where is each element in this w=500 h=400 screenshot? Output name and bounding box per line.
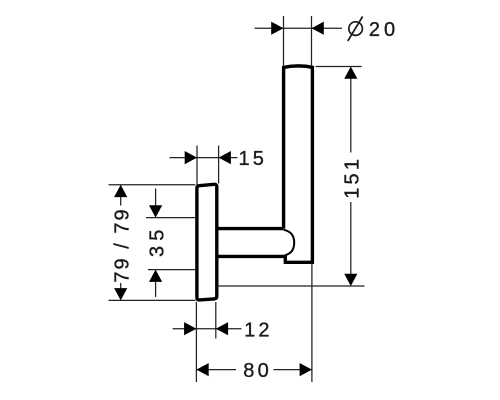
arrowhead 79/79 bottom (points down) — [114, 288, 127, 300]
dim 12 right tail — [216, 328, 242, 330]
svg-text:79 / 79: 79 / 79 — [112, 207, 134, 282]
arm-to-pipe transition arc — [284, 230, 294, 255]
arm bottom edge — [217, 255, 285, 258]
dim 15 extension line left — [196, 146, 198, 186]
arrowhead 79/79 top (points up) — [114, 185, 127, 197]
dim Ø20 right tail — [312, 27, 343, 29]
dim 151 dimension line lower segment — [350, 202, 352, 283]
dim Ø20 dimension line — [255, 27, 312, 29]
dim 35 lower leader — [155, 280, 157, 297]
arrowhead 15 left (points right) — [185, 151, 197, 164]
dim 35 top extension line — [146, 217, 195, 219]
svg-text:35: 35 — [147, 224, 169, 257]
pipe bottom edge — [285, 261, 314, 264]
pipe bottom-left step — [284, 255, 287, 264]
arrowhead 35 bottom (points up) — [149, 270, 162, 282]
dim 79/79 bottom extension line — [109, 299, 196, 301]
diameter symbol circle — [349, 22, 363, 36]
diameter symbol slash — [348, 17, 363, 42]
dim 79/79 top extension line — [109, 184, 196, 186]
dim 15 right tail — [219, 157, 238, 159]
arrowhead 151 bottom (points down) — [344, 274, 357, 286]
dim 80 dimension line right segment — [274, 369, 312, 371]
arrowhead Ø20 left (points right) — [271, 22, 283, 35]
arrowhead 80 left (points left) — [196, 363, 208, 376]
dim 151 dimension line upper segment — [350, 70, 352, 153]
svg-text:12: 12 — [244, 319, 273, 341]
arrowhead 151 top (points up) — [344, 67, 357, 79]
arrowhead Ø20 right (points left) — [312, 22, 324, 35]
dim Ø20 extension line right — [311, 16, 313, 66]
dim 79/79 upper stub — [120, 195, 122, 206]
svg-text:80: 80 — [243, 360, 272, 382]
dim 35 bottom extension line — [148, 269, 195, 271]
arrowhead 80 right (points right) — [300, 363, 312, 376]
pipe top cap — [282, 66, 313, 68]
arrowhead 12 right (points left) — [216, 322, 228, 335]
dim 35 upper leader — [155, 189, 157, 208]
arrowhead 35 top (points down) — [149, 205, 162, 217]
svg-text:151: 151 — [342, 156, 364, 199]
pipe right edge — [311, 67, 314, 262]
dim 15 extension line right — [218, 146, 220, 184]
pipe left edge — [282, 67, 285, 229]
dim Ø20 extension line left — [283, 16, 285, 66]
dim 151 bottom extension line — [218, 285, 365, 287]
arrowhead 15 right (points left) — [219, 151, 231, 164]
dim 12 dimension line — [173, 328, 216, 330]
wall plate (side view) — [197, 184, 217, 300]
dim 79/79 lower stub — [120, 283, 122, 290]
svg-text:20: 20 — [369, 19, 399, 41]
dim 80 dimension line left segment — [196, 369, 236, 371]
svg-text:15: 15 — [238, 148, 267, 170]
arm top edge — [217, 227, 284, 230]
dim 15 dimension line — [170, 157, 219, 159]
dim 12 extension line right — [215, 302, 217, 339]
arrowhead 12 left (points right) — [184, 322, 196, 335]
dim 151 top extension line — [316, 66, 362, 68]
dim 80 extension line right — [311, 264, 313, 383]
dim 12 extension line left / 80 shared — [195, 302, 197, 382]
